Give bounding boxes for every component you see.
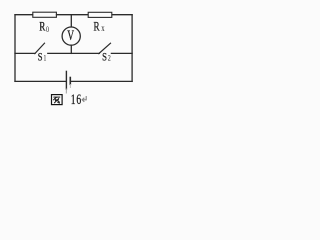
svg-text:16: 16 <box>71 91 82 108</box>
battery long plate scan smear <box>65 89 67 93</box>
battery short plate scan smear <box>69 85 71 88</box>
resistor R0 <box>33 12 57 17</box>
wire middle-right segment <box>111 52 132 54</box>
svg-text:R: R <box>39 20 45 34</box>
svg-text:x: x <box>101 23 104 33</box>
caption character 图 <box>52 95 63 105</box>
wire middle-left segment <box>15 52 35 54</box>
wire right vertical <box>131 15 133 82</box>
caption number 16 <box>71 91 82 108</box>
label R0 <box>39 20 49 35</box>
battery short plate <box>69 78 71 85</box>
switch S2 arm <box>99 43 111 53</box>
wire middle-center segment <box>48 52 100 54</box>
resistor Rx <box>88 12 112 17</box>
svg-text:S: S <box>38 51 43 64</box>
switch S1 arm <box>35 43 45 53</box>
wire voltmeter top stub <box>70 15 72 27</box>
wire top-right segment <box>112 14 132 16</box>
label Rx <box>94 20 105 34</box>
battery long plate <box>65 71 67 89</box>
voltmeter letter V <box>67 27 74 44</box>
svg-text:S: S <box>102 51 107 64</box>
wire voltmeter bottom stub <box>70 45 72 53</box>
voltmeter V circle <box>62 27 80 45</box>
caption return mark <box>82 96 86 102</box>
label S2 <box>102 51 111 64</box>
wire bottom-right segment <box>71 80 132 82</box>
svg-text:2: 2 <box>108 53 111 63</box>
svg-text:V: V <box>67 27 74 44</box>
svg-text:R: R <box>94 20 100 34</box>
wire top-left segment <box>15 14 33 16</box>
wire left vertical <box>14 15 16 82</box>
wire top-middle segment <box>57 14 88 16</box>
wire bottom-left segment <box>15 80 66 82</box>
svg-text:1: 1 <box>43 53 46 63</box>
label S1 <box>38 51 47 64</box>
svg-text:0: 0 <box>46 24 49 34</box>
